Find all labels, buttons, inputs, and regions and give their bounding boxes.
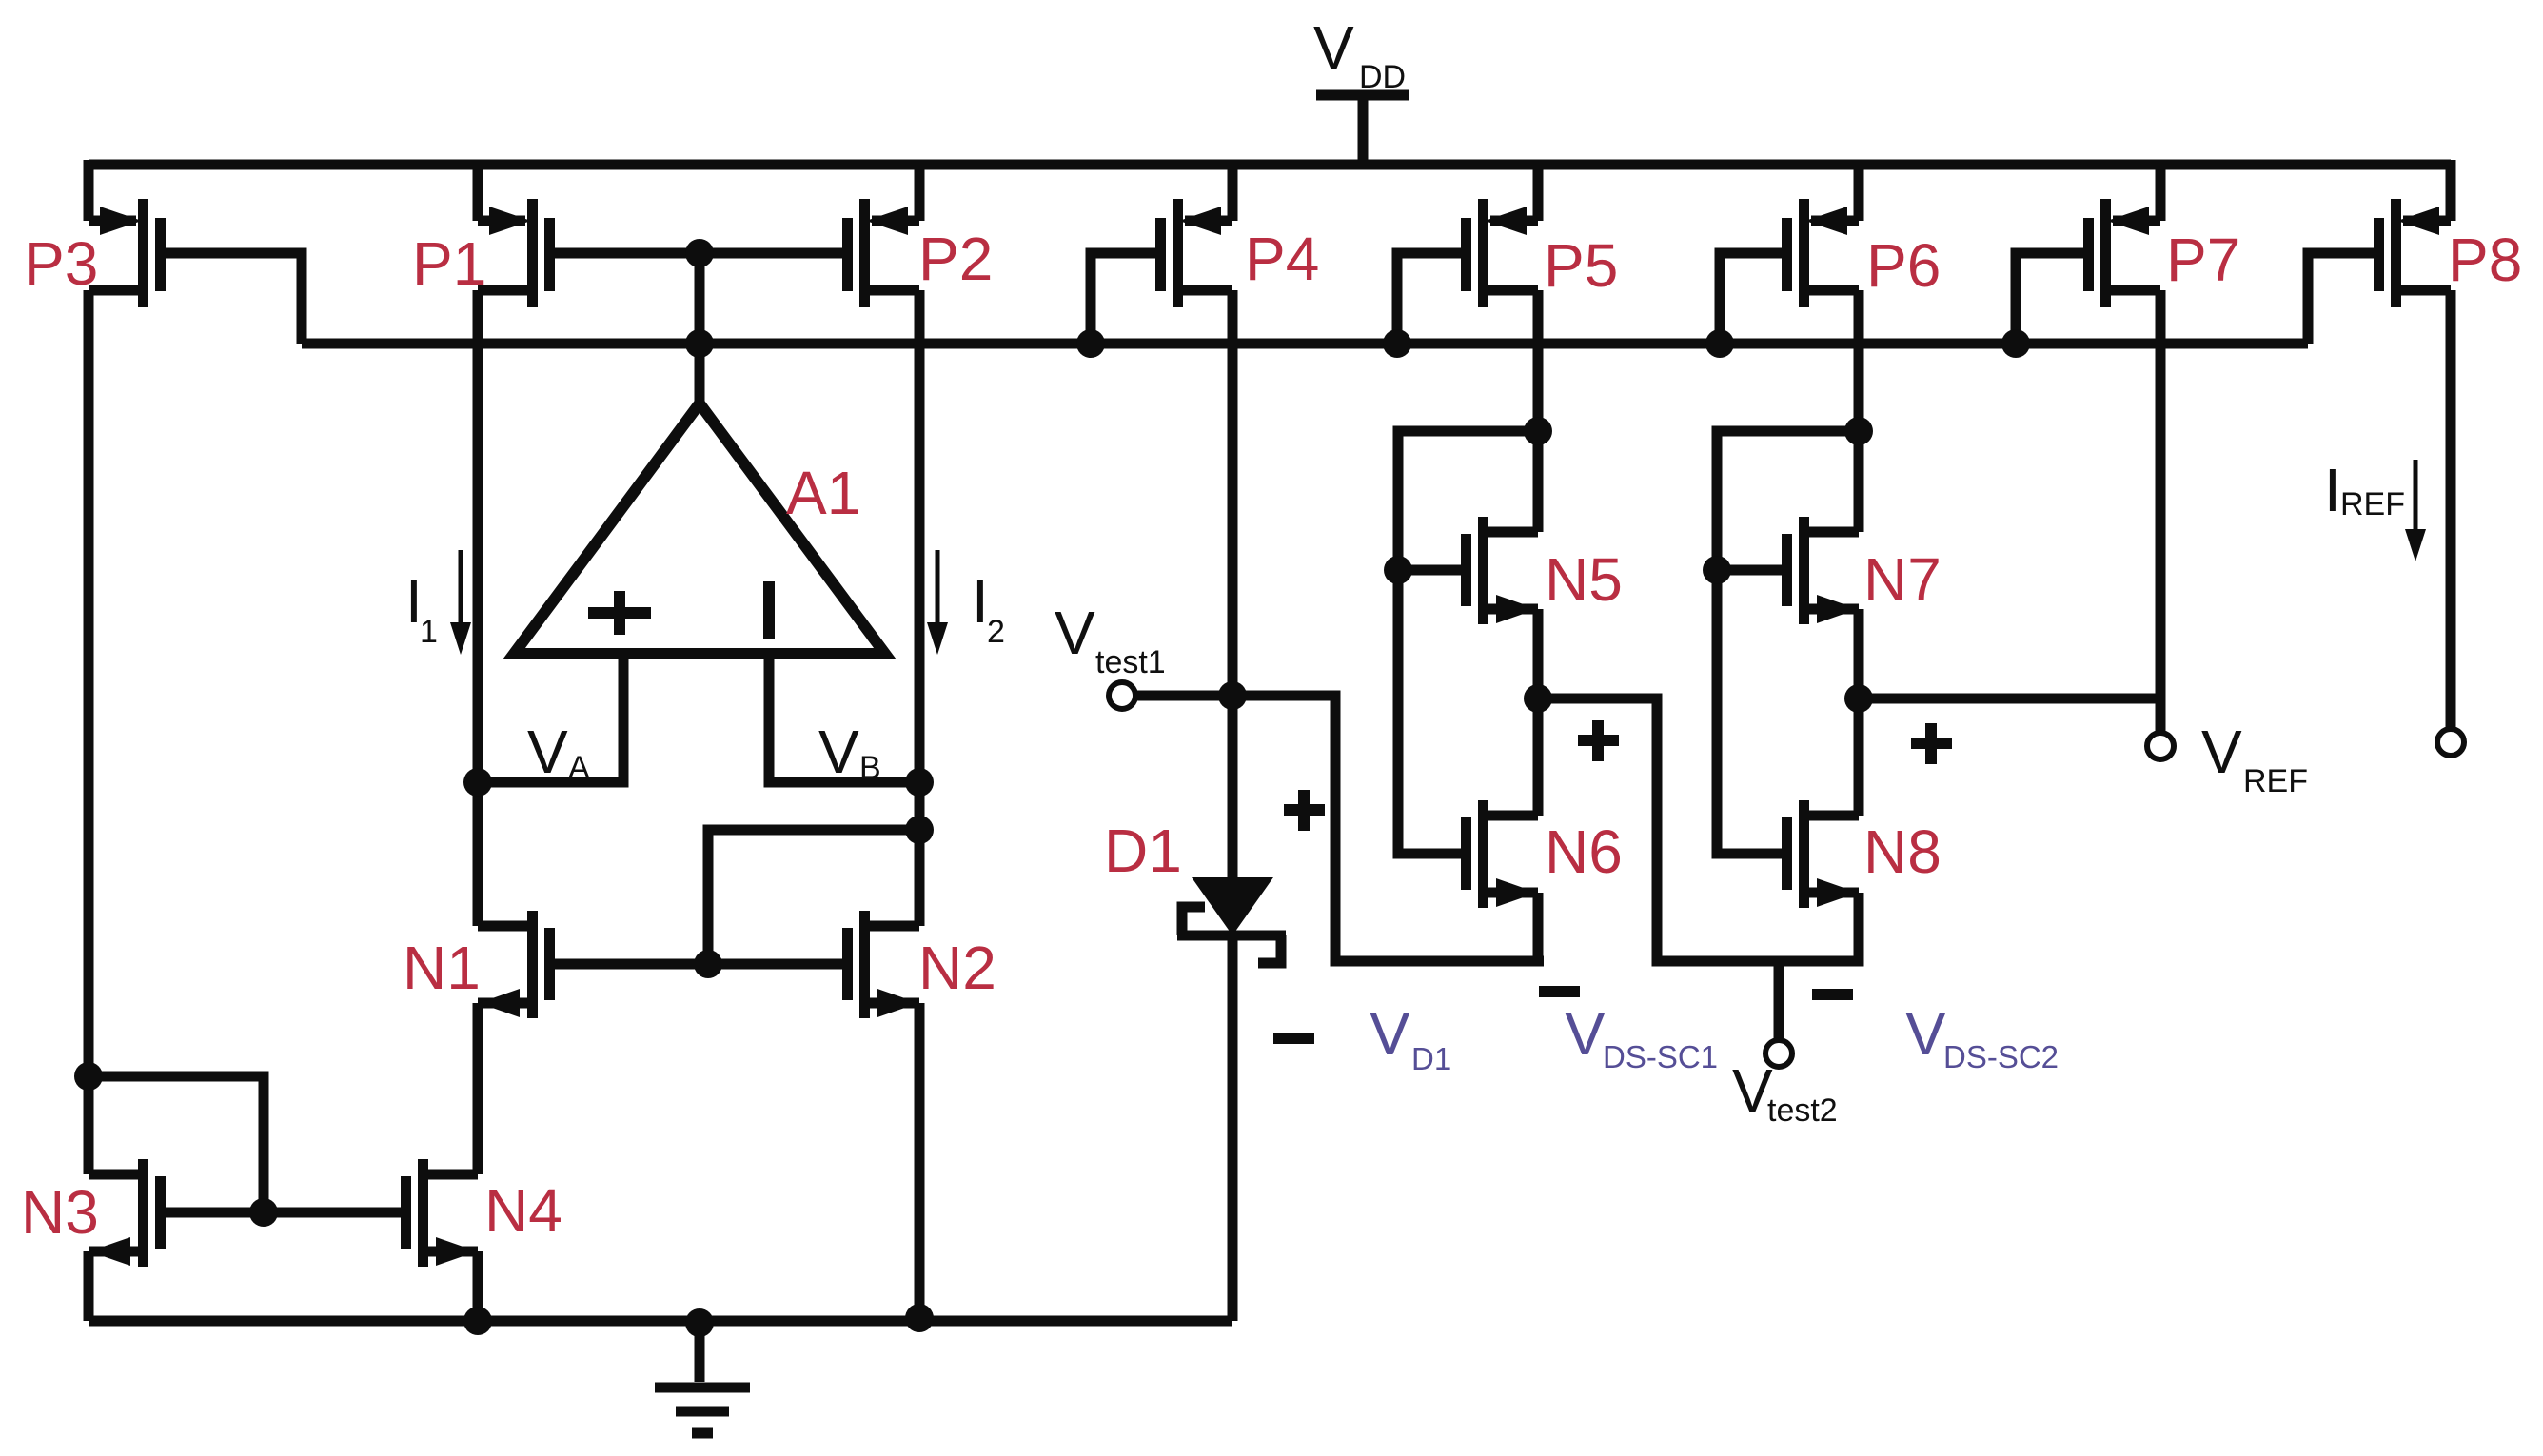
svg-text:N7: N7 [1863, 545, 1942, 614]
transistor P3 [89, 199, 166, 307]
gate bus wire [302, 339, 2308, 349]
node P4 gate on bus [1076, 329, 1105, 358]
transistor P4 [1155, 199, 1232, 307]
diode D1 [1177, 877, 1286, 963]
D1 minus sign [1273, 1033, 1314, 1044]
node label VA [527, 718, 590, 786]
wire P7 source from rail [2156, 160, 2166, 221]
svg-text:V: V [2201, 718, 2242, 786]
terminal Vtest2 [1765, 1040, 1792, 1067]
wire P7 gate to bus [2016, 253, 2092, 344]
transistor N8 [1782, 800, 1859, 908]
terminal VREF [2147, 733, 2174, 759]
node gate line / A1 output junction [685, 239, 714, 267]
transistor N1 [478, 911, 555, 1018]
node on N1-N2 gate line [694, 950, 722, 978]
wire P8 gate to bus end [2308, 253, 2382, 344]
node ground stub [685, 1308, 714, 1337]
svg-text:REF: REF [2243, 763, 2308, 799]
wire P6 source from rail [1854, 160, 1864, 221]
wire P3 source from rail [84, 160, 94, 221]
svg-text:V: V [1055, 599, 1095, 667]
node VA [463, 768, 492, 797]
svg-text:DS-SC1: DS-SC1 [1603, 1039, 1718, 1074]
wire P3 drain down to node [84, 290, 94, 1174]
svg-text:D1: D1 [1411, 1041, 1451, 1076]
wire N7 gate branch [1717, 565, 1782, 576]
node N2 source on rail [905, 1304, 934, 1332]
current arrow I1 [450, 550, 471, 655]
transistor P6 [1782, 199, 1859, 307]
wire P6 gate to bus [1720, 253, 1790, 344]
wire P4 drain down to D1 [1228, 290, 1238, 883]
wire N3 N4 gate line [162, 1208, 407, 1218]
svg-text:N5: N5 [1545, 545, 1623, 614]
wire midpoint 2 to VREF line [1859, 694, 2160, 704]
svg-text:N1: N1 [403, 934, 481, 1002]
node Vtest1 junction [1218, 681, 1247, 710]
node A1 output on bus [685, 329, 714, 358]
svg-text:P4: P4 [1245, 225, 1319, 293]
wire P8 source from rail [2446, 160, 2456, 221]
Vtest1 label [1055, 599, 1166, 680]
D1 plus sign [1284, 790, 1325, 831]
wire Vtest1 node to N6 source [1136, 696, 1544, 961]
svg-text:A1: A1 [786, 459, 860, 527]
wire VDD top rail [89, 160, 2451, 170]
transistor N2 [842, 911, 919, 1018]
node VB [905, 768, 934, 797]
wire N6 source down [1533, 893, 1544, 961]
node P7 gate on bus [2001, 329, 2030, 358]
transistor P1 [478, 199, 555, 307]
node N5 gate branch [1384, 556, 1412, 584]
svg-text:P7: P7 [2166, 226, 2240, 294]
svg-text:P5: P5 [1544, 231, 1618, 300]
wire P1 drain down to VA and N1 [473, 290, 483, 926]
op-amp A1 [514, 403, 885, 654]
VDD power symbol [1316, 95, 1409, 165]
transistor N4 [401, 1159, 478, 1267]
voltage label VDS-SC1 [1565, 999, 1718, 1074]
node N7 drain gate tie [1844, 417, 1873, 445]
svg-text:DD: DD [1359, 59, 1406, 95]
voltage label VD1 [1370, 999, 1451, 1076]
wire P6 drain down to N7 [1854, 290, 1864, 532]
svg-text:2: 2 [987, 614, 1005, 650]
svg-text:B: B [859, 750, 881, 786]
node P5 gate on bus [1383, 329, 1411, 358]
svg-text:N3: N3 [21, 1178, 99, 1247]
svg-text:N6: N6 [1545, 817, 1623, 886]
svg-text:P2: P2 [918, 225, 993, 293]
wire N1 N2 gate line [551, 959, 849, 970]
wire N3 diode loop [89, 1076, 264, 1212]
self-cascode 2 plus sign [1911, 723, 1952, 764]
svg-text:DS-SC2: DS-SC2 [1943, 1039, 2059, 1074]
current label I2 [972, 567, 1005, 650]
wire P7 drain down to VREF [2156, 290, 2166, 731]
self-cascode 1 minus sign [1539, 986, 1580, 997]
transistor N5 [1461, 517, 1538, 624]
wire P1 source from rail [473, 160, 483, 221]
wire N4 source to ground rail [473, 1251, 483, 1321]
wire midpoint 1 to N8 source [1538, 698, 1859, 961]
wire P2 drain down to VB and N2 [915, 290, 925, 926]
voltage label VDS-SC2 [1905, 999, 2059, 1074]
svg-text:REF: REF [2340, 486, 2405, 522]
transistor N6 [1461, 800, 1538, 908]
wire N3 source to ground rail [84, 1251, 94, 1321]
wire VB to N1 N2 gates [708, 830, 919, 964]
svg-text:P3: P3 [24, 229, 98, 298]
wire Vtest2 stub [1774, 961, 1784, 1039]
svg-text:V: V [818, 718, 859, 786]
wire D1 cathode to ground rail [1228, 935, 1238, 1321]
wire N2 source to ground rail [915, 1003, 925, 1321]
wire P2 source from rail [915, 160, 925, 221]
node self-cascode 2 midpoint [1844, 684, 1873, 713]
wire N5 source to N6 drain [1533, 609, 1544, 816]
wire P4 source from rail [1228, 160, 1238, 221]
wire P1-P2 gate line [551, 248, 849, 259]
wire P3 gate to bus [164, 253, 302, 344]
Vtest2 label [1732, 1056, 1838, 1129]
svg-text:D1: D1 [1104, 817, 1182, 885]
current arrow I2 [927, 550, 948, 655]
node N3 gate junction [249, 1198, 278, 1227]
transistor P7 [2083, 199, 2160, 307]
svg-text:test1: test1 [1095, 644, 1166, 680]
wire N7 N8 gate loop [1717, 431, 1859, 854]
node P6 gate on bus [1705, 329, 1734, 358]
terminal Vtest1 [1109, 682, 1135, 709]
svg-text:1: 1 [420, 614, 438, 650]
svg-text:V: V [527, 718, 568, 786]
transistor P2 [842, 199, 919, 307]
ground symbol [655, 1321, 750, 1433]
node N5 drain gate tie [1524, 417, 1552, 445]
wire A1 output to gate bus [695, 253, 705, 403]
svg-text:V: V [1565, 999, 1606, 1068]
VREF label [2201, 718, 2308, 799]
svg-text:P6: P6 [1866, 231, 1941, 300]
wire P5 source from rail [1533, 160, 1544, 221]
node label VB [818, 718, 881, 786]
IREF current label [2324, 456, 2405, 524]
transistor P8 [2374, 199, 2451, 307]
A1 plus input sign [588, 591, 651, 635]
svg-text:I: I [2324, 456, 2341, 524]
svg-text:A: A [568, 750, 590, 786]
IREF current arrow [2405, 460, 2426, 561]
current label I1 [405, 567, 438, 650]
wire P5 gate to bus [1397, 253, 1469, 344]
wire P5 drain down to N5 [1533, 290, 1544, 532]
A1 minus input sign [763, 581, 775, 639]
svg-text:V: V [1370, 999, 1410, 1068]
svg-text:N2: N2 [918, 934, 996, 1002]
svg-text:N8: N8 [1863, 817, 1942, 886]
svg-text:V: V [1905, 999, 1946, 1068]
wire N5 N6 gate loop [1398, 431, 1538, 854]
svg-text:test2: test2 [1767, 1092, 1838, 1129]
svg-text:V: V [1313, 13, 1354, 82]
self-cascode 1 plus sign [1578, 720, 1619, 761]
transistor N7 [1782, 517, 1859, 624]
transistor N3 [89, 1159, 166, 1267]
wire P8 drain down to IREF terminal [2446, 290, 2456, 728]
node self-cascode 1 midpoint [1524, 684, 1552, 713]
wire A1 + input to VA [478, 654, 623, 782]
wire N7 source to N8 drain [1854, 609, 1864, 816]
node P3 drain / N3 gate junction [74, 1062, 103, 1091]
wire N1 source to N4 drain [473, 1003, 483, 1174]
self-cascode 2 minus sign [1812, 989, 1853, 1000]
svg-text:N4: N4 [484, 1176, 562, 1245]
ground rail wire [89, 1316, 1232, 1327]
terminal IREF [2437, 729, 2464, 756]
svg-text:P1: P1 [412, 229, 486, 298]
node N4 source on rail [463, 1307, 492, 1335]
wire A1 - input to VB [769, 654, 919, 782]
wire N5 gate branch [1398, 565, 1461, 576]
node N2 gate tie [905, 816, 934, 844]
svg-text:P8: P8 [2448, 226, 2522, 294]
VDD label [1313, 13, 1406, 95]
wire P4 gate to bus [1091, 253, 1164, 344]
transistor P5 [1461, 199, 1538, 307]
node N7 gate branch [1703, 556, 1731, 584]
